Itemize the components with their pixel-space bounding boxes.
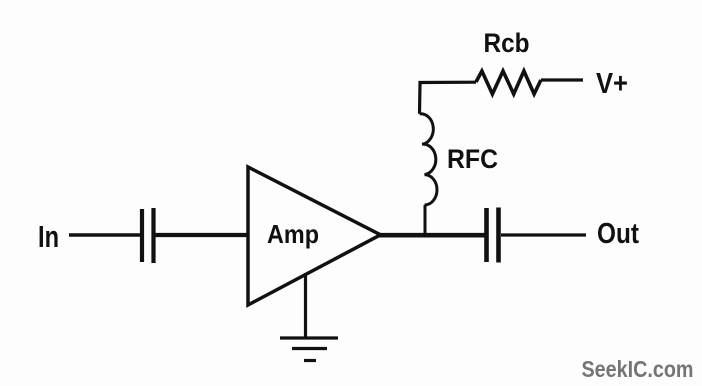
svg-text:In: In bbox=[38, 220, 59, 254]
svg-text:Rcb: Rcb bbox=[484, 28, 530, 58]
svg-text:SeekIC.com: SeekIC.com bbox=[582, 356, 694, 382]
capacitor C2 (output coupling cap) bbox=[487, 208, 499, 263]
svg-text:RFC: RFC bbox=[447, 144, 498, 174]
wire: Amp to ground bbox=[304, 273, 307, 338]
wire: node up to RFC bbox=[424, 205, 427, 236]
svg-text:Out: Out bbox=[597, 218, 639, 250]
inductor RFC (coil) bbox=[420, 114, 438, 205]
wire: C2 to Out bbox=[501, 233, 586, 236]
wire: Amp output to node and C2 (heavy segment) bbox=[378, 233, 485, 238]
wire: Rcb to V+ bbox=[541, 78, 583, 81]
wire: RFC top up and over to Rcb bbox=[420, 82, 477, 114]
wire: In to C1 bbox=[69, 233, 140, 237]
op-amp U1 (Amp triangle) bbox=[248, 167, 381, 305]
ground bbox=[280, 338, 338, 361]
wire: C1 to Amp input bbox=[156, 233, 248, 237]
capacitor C1 (input coupling cap) bbox=[142, 208, 154, 263]
svg-text:V+: V+ bbox=[596, 68, 628, 100]
resistor Rcb (zigzag) bbox=[476, 71, 541, 94]
svg-text:Amp: Amp bbox=[267, 219, 319, 249]
